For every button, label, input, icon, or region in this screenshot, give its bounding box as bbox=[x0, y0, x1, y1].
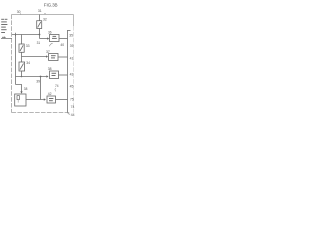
svg-text:31: 31 bbox=[38, 9, 42, 13]
wire horizontal branch left at y34.5 bbox=[12, 34, 40, 36]
leader tick for label 30 bbox=[19, 13, 22, 15]
outer boundary box 30 (dash-dot chip outline) bbox=[12, 15, 74, 113]
branch wire to amp box 2 bbox=[22, 56, 47, 58]
svg-text:37: 37 bbox=[46, 50, 50, 54]
svg-text:44: 44 bbox=[71, 113, 75, 117]
wire input horizontal into box bbox=[1, 38, 12, 40]
svg-text:42: 42 bbox=[48, 92, 52, 96]
svg-text:40: 40 bbox=[60, 43, 64, 47]
divider box 4 inner text bbox=[49, 98, 53, 101]
svg-text:38: 38 bbox=[24, 87, 28, 91]
amp box 3 bbox=[50, 71, 59, 79]
arrowhead into box 4 bbox=[44, 98, 46, 100]
wire box4 to bus bbox=[56, 99, 68, 101]
svg-text:74: 74 bbox=[71, 105, 75, 109]
wire to amp box 1 bbox=[40, 38, 48, 40]
crystal box bbox=[15, 94, 26, 106]
wire from slashed box A down bbox=[39, 29, 41, 39]
amp box 3 inner text bbox=[52, 73, 57, 76]
leader curl under box 1 to label 40 bbox=[49, 43, 52, 46]
leader curl for label 74 bbox=[54, 88, 57, 91]
svg-text:33: 33 bbox=[26, 44, 30, 48]
bus top nub bbox=[68, 30, 71, 32]
wire box1 to bus bbox=[59, 38, 68, 40]
svg-text:FIG.3B: FIG.3B bbox=[44, 2, 58, 7]
svg-text:34: 34 bbox=[26, 61, 30, 65]
corner curl bottom right bbox=[68, 113, 71, 115]
resistor (slashed box) A bbox=[37, 21, 42, 29]
svg-text:32: 32 bbox=[43, 18, 47, 22]
crystal inner element bbox=[17, 96, 19, 100]
left chain vertical down to slashed box B bbox=[21, 35, 23, 45]
svg-text:41: 41 bbox=[70, 57, 74, 61]
amp box 1 inner text bbox=[52, 36, 57, 39]
junction tick on bus bbox=[15, 33, 17, 36]
junction dot bbox=[40, 76, 42, 78]
amp box 2 inner text bbox=[51, 55, 56, 58]
wire vertical drop to bottom row bbox=[40, 77, 42, 100]
svg-text:38: 38 bbox=[48, 67, 52, 71]
junction dot chain/wire bbox=[21, 76, 23, 78]
wire box2 to bus bbox=[58, 56, 68, 58]
bus vertical x15.5 bbox=[15, 35, 17, 85]
wire box3 to bus bbox=[59, 74, 68, 76]
junction dot at y34.5 bbox=[39, 34, 41, 36]
svg-text:39: 39 bbox=[70, 44, 74, 48]
input label text block (left outside) bbox=[1, 19, 7, 33]
tick right of entry bbox=[44, 13, 46, 15]
arrowhead into box 2 bbox=[46, 55, 48, 57]
bus vertical right x67.5 bbox=[67, 30, 69, 113]
svg-text:45: 45 bbox=[70, 85, 74, 89]
wire between slashed boxes B and C bbox=[21, 52, 23, 62]
resistor (slashed box) B bbox=[19, 44, 24, 52]
divider box 4 bbox=[47, 96, 56, 103]
bus turn to crystal box bbox=[16, 85, 22, 92]
wire from crystal box to divider box 4 bbox=[26, 99, 44, 101]
svg-text:35: 35 bbox=[69, 34, 73, 38]
svg-text:74: 74 bbox=[55, 84, 59, 88]
amp box 2 bbox=[49, 54, 58, 61]
wire from top edge down to slashed box A bbox=[39, 15, 41, 21]
wire horizontal to amp box 3 bbox=[16, 76, 47, 78]
svg-text:43: 43 bbox=[70, 73, 74, 77]
svg-text:30: 30 bbox=[17, 10, 21, 14]
svg-text:31: 31 bbox=[37, 41, 41, 45]
arrowhead into box 1 bbox=[47, 37, 49, 39]
svg-text:36: 36 bbox=[48, 31, 52, 35]
amp box 1 bbox=[50, 35, 60, 42]
input arrow mark bbox=[2, 36, 4, 38]
svg-text:75: 75 bbox=[70, 98, 74, 102]
resistor (slashed box) C bbox=[19, 62, 25, 71]
svg-text:39: 39 bbox=[36, 80, 40, 84]
arrowhead into box 3 bbox=[46, 75, 48, 77]
wire below slashed box C bbox=[21, 71, 23, 77]
arrowhead down into crystal box bbox=[20, 91, 22, 93]
